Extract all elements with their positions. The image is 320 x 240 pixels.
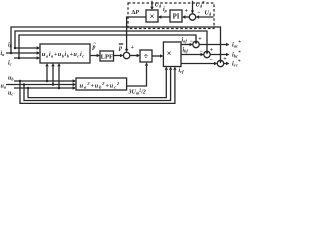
svg-text:+: + xyxy=(198,36,202,42)
summer S1 xyxy=(123,52,129,58)
svg-text:+: + xyxy=(210,47,214,53)
svg-text:+: + xyxy=(223,57,227,63)
svg-text:ia: ia xyxy=(1,51,6,57)
wire: ic branch top line to row1 summer xyxy=(19,35,196,58)
svg-text:~: ~ xyxy=(94,42,97,47)
wire pbar to summer xyxy=(114,55,123,57)
node tap ic xyxy=(18,57,21,60)
wire C2 output xyxy=(210,54,228,56)
svg-text:ibf: ibf xyxy=(183,47,189,53)
block P2: ua^2+ub^2+uc^2 xyxy=(76,78,127,90)
block LPF xyxy=(100,51,114,61)
block P1: ua*ia+ub*ib+uc*ic xyxy=(40,44,90,63)
wire ub bus to multiplier bottom xyxy=(20,70,175,103)
summer C3 xyxy=(217,60,223,66)
wire p to LPF xyxy=(90,55,99,57)
svg-text:Ud: Ud xyxy=(205,10,212,16)
dashed control box xyxy=(128,3,214,29)
wire summer S2 to PI xyxy=(183,16,189,18)
block multiplier xyxy=(163,42,181,67)
svg-text:ua: ua xyxy=(1,84,7,90)
wire input u_a xyxy=(6,84,75,86)
wire Ud* into S2 top xyxy=(192,1,194,11)
node tap ia xyxy=(10,52,13,55)
block PI xyxy=(170,10,182,22)
wire uc feed to P1 bottom xyxy=(58,67,60,89)
svg-text:p: p xyxy=(118,46,122,52)
wire multiplier row3 to summer C3 xyxy=(181,63,216,65)
wire input i_b xyxy=(14,47,39,49)
svg-text:iac*: iac* xyxy=(232,41,241,49)
svg-text:PI: PI xyxy=(173,14,180,21)
wire input i_a xyxy=(6,52,39,54)
wire Ud into multiplier U top xyxy=(151,1,153,7)
svg-text:÷: ÷ xyxy=(144,52,149,61)
wire C1 output xyxy=(199,44,228,46)
summer S2 xyxy=(189,14,195,20)
svg-text:ibc*: ibc* xyxy=(232,51,241,59)
svg-text:LPF: LPF xyxy=(101,53,113,60)
wire: ia branch top line to row3 summer xyxy=(11,27,221,60)
wire S1 to divider xyxy=(130,55,139,57)
wire uc bus to multiplier bottom xyxy=(28,70,166,98)
svg-text:ip: ip xyxy=(163,7,168,13)
svg-text:ΔP: ΔP xyxy=(132,10,140,16)
svg-text:ub: ub xyxy=(8,76,14,82)
svg-text:ib: ib xyxy=(8,43,13,49)
svg-text:3Um2/2: 3Um2/2 xyxy=(128,88,146,95)
svg-text:+: + xyxy=(185,8,189,14)
node tap ib xyxy=(14,47,17,50)
svg-text:Ud: Ud xyxy=(155,3,162,9)
wire PI to multiplier U xyxy=(159,16,170,18)
svg-text:−: − xyxy=(200,49,204,55)
block divider xyxy=(140,50,152,62)
wire divider to multiplier xyxy=(152,55,162,57)
wire input i_c xyxy=(14,57,39,59)
wire: ib branch top line to row2 summer xyxy=(15,31,207,51)
svg-text:icf: icf xyxy=(179,68,185,74)
wire ub feed to P1 bottom xyxy=(46,67,48,82)
summer C1 xyxy=(193,41,199,47)
summer C2 xyxy=(204,51,210,57)
svg-text:×: × xyxy=(167,48,172,58)
svg-text:−: − xyxy=(197,10,201,16)
block multiplier U xyxy=(146,10,158,22)
svg-text:+: + xyxy=(131,45,135,51)
svg-text:×: × xyxy=(150,11,155,21)
wire multiplier row1 to summer C1 xyxy=(181,44,192,46)
wire input u_b xyxy=(14,80,75,82)
wire input u_c xyxy=(14,87,75,89)
wire ua feed to P1 bottom xyxy=(52,67,54,85)
wire C3 output xyxy=(224,63,229,65)
svg-text:icc*: icc* xyxy=(232,60,241,68)
wire u2 sum to divider bottom xyxy=(127,66,147,86)
wire multiplier row2 to summer C2 xyxy=(181,54,203,56)
svg-text:Ud*: Ud* xyxy=(196,2,206,9)
svg-text:ic: ic xyxy=(8,61,12,67)
svg-text:uc: uc xyxy=(8,91,13,97)
svg-text:−: − xyxy=(210,58,214,64)
wire ua bus to multiplier bottom xyxy=(24,70,171,101)
wire dP from mult box to summer S1 xyxy=(127,17,146,49)
wire Ud from right into S2 xyxy=(197,16,214,18)
svg-text:iaf: iaf xyxy=(182,38,188,44)
